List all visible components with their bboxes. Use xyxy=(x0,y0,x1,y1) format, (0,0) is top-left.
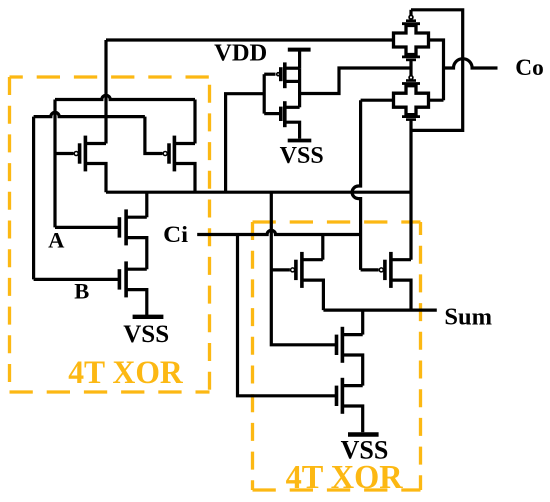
svg-text:Sum: Sum xyxy=(444,304,492,331)
svg-text:VDD: VDD xyxy=(214,40,267,67)
wire: B line with hop over x=55 xyxy=(34,112,145,116)
vdd bar symbol xyxy=(288,48,311,52)
svg-text:Ci: Ci xyxy=(163,222,189,247)
pmos P5 (XOR2 right) xyxy=(361,252,411,310)
wire: TG2 input vertical with hop over node line xyxy=(352,100,361,270)
nmos N3 (inverter pull-down) xyxy=(264,101,299,138)
svg-text:VSS: VSS xyxy=(123,321,169,348)
4T XOR box 2 (dashed orange) xyxy=(253,222,421,490)
ground (XOR1 VSS) xyxy=(133,315,164,319)
wire: B vertical xyxy=(32,117,35,280)
svg-text:Co: Co xyxy=(515,55,544,80)
wire: XOR1-out vertical to N5 gate xyxy=(271,192,336,345)
pmos P4 (XOR2 left) xyxy=(271,252,323,310)
wire: B branch down to P2 gate xyxy=(145,117,163,154)
wire: TG2 input lead xyxy=(361,99,394,102)
wire: inverter output to TG control xyxy=(300,68,411,94)
ground (inverter VSS) xyxy=(288,139,312,143)
wire: Sum node line xyxy=(323,309,436,312)
nmos N2 (XOR1 input B) xyxy=(119,261,146,315)
wire: vertical down to P2 source lead xyxy=(193,100,196,144)
wire: A row to N1 gate xyxy=(55,226,119,229)
wire: inverter input from node line xyxy=(226,94,265,193)
wire: inverter gate bus xyxy=(263,74,266,113)
wire: B row to N2 gate xyxy=(34,278,120,281)
wire: vdd stem xyxy=(298,50,301,69)
wire: A line with hop over x=106 xyxy=(55,95,195,99)
wire: Co tap with hop xyxy=(444,59,498,68)
nmos N1 (XOR1 input A) xyxy=(119,192,146,269)
nmos N6 (XOR2 lower) xyxy=(337,378,363,433)
svg-text:4T XOR: 4T XOR xyxy=(68,355,184,391)
wire: Sum node down to N5 drain xyxy=(361,310,364,335)
svg-text:A: A xyxy=(48,227,65,252)
transmission gate TG1 xyxy=(394,10,429,76)
svg-text:VSS: VSS xyxy=(280,143,324,169)
wire: TG1 gate to TG2 gate return xyxy=(411,10,463,131)
pmos P1 (XOR1 left) xyxy=(55,136,106,193)
4T XOR box 1 (dashed orange) xyxy=(10,77,210,392)
ground (XOR2 VSS) xyxy=(348,432,379,436)
wire: Ci line with hop over x=271.3 xyxy=(197,230,360,234)
nmos N5 (XOR2 upper) xyxy=(337,327,363,386)
wire: Ci vertical to N6 gate xyxy=(238,235,337,396)
wire: A vertical xyxy=(53,100,56,228)
svg-text:4T XOR: 4T XOR xyxy=(286,459,403,496)
transmission gate TG2 xyxy=(394,76,429,260)
wire: TG right arms tie xyxy=(429,40,444,100)
wire: vertical x=106 top line down to P1 source xyxy=(104,40,107,144)
wire: top line (B node to TG1 input) xyxy=(106,38,394,41)
pmos P2 (XOR1 right) xyxy=(163,136,195,193)
wire: inverter output junction xyxy=(298,68,301,107)
svg-text:B: B xyxy=(74,279,89,304)
wire: XOR1 output node line xyxy=(106,191,411,194)
pmos P3 (inverter pull-up) xyxy=(264,62,299,88)
wire: Ci stub down to P4 source xyxy=(321,235,324,260)
